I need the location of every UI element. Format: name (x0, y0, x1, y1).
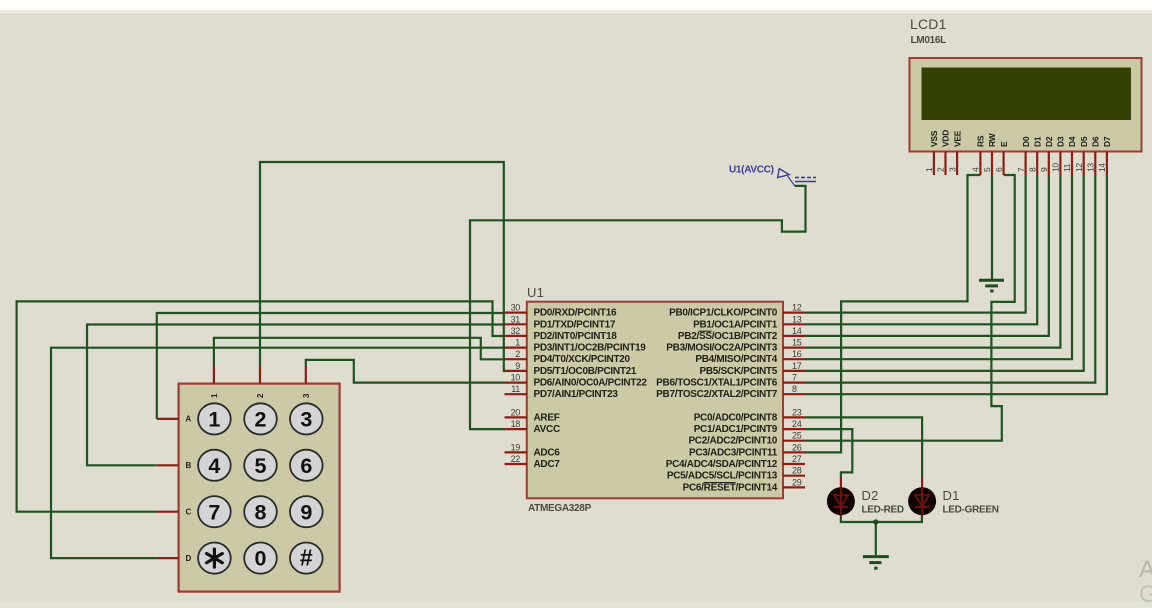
svg-text:D5: D5 (1079, 136, 1089, 147)
svg-text:32: 32 (511, 326, 521, 336)
svg-text:PC3/ADC3/PCINT11: PC3/ADC3/PCINT11 (689, 447, 778, 458)
svg-text:26: 26 (792, 442, 802, 452)
U1 pin stub 11 left (505, 393, 527, 395)
svg-text:30: 30 (511, 303, 521, 313)
U1 pin stub 29 right (783, 486, 805, 488)
U1 body (527, 302, 783, 499)
keypad button 7 (198, 496, 231, 527)
svg-text:PB6/TOSC1/XTAL1/PCINT6: PB6/TOSC1/XTAL1/PCINT6 (656, 378, 778, 389)
svg-text:13: 13 (792, 314, 802, 324)
U1 pin stub 25 right (783, 440, 805, 442)
svg-text:28: 28 (792, 466, 802, 476)
svg-text:D7: D7 (1102, 136, 1112, 147)
keypad pin stub col2 (259, 366, 261, 384)
wire LCD E to U1 pin25 net (805, 175, 1015, 441)
LCD1 pin stub VEE (956, 152, 958, 176)
wire AVCC net U1 pin18 to power flag (470, 186, 806, 429)
svg-text:12: 12 (792, 303, 802, 313)
svg-text:D6: D6 (1091, 136, 1101, 147)
svg-text:VSS: VSS (929, 130, 939, 147)
wire ground stem below LEDs (875, 522, 877, 555)
svg-text:8: 8 (792, 384, 797, 394)
svg-text:D3: D3 (1056, 136, 1066, 147)
U1 pin stub 15 right (783, 347, 805, 349)
keypad button 0 (244, 543, 277, 574)
svg-text:D1: D1 (943, 488, 960, 503)
wire U1 PB to LCD D7 net (805, 175, 1107, 394)
wire U1 PB to LCD D1 net (805, 175, 1037, 324)
svg-text:3: 3 (947, 167, 957, 172)
keypad button # (290, 543, 323, 574)
svg-text:RW: RW (987, 132, 997, 147)
svg-text:6: 6 (300, 454, 312, 478)
keypad pin stub col1 (213, 366, 215, 384)
wire keypad col1 to U1 pin2 net (214, 338, 505, 366)
wire keypad col3 to U1 pin10 net (306, 360, 505, 383)
keypad button 8 (244, 496, 277, 527)
D1 anode stub (921, 478, 923, 489)
U1 pin stub 16 right (783, 358, 805, 360)
svg-text:10: 10 (511, 373, 521, 383)
wire U1 pin23 to D1 anode net (805, 417, 922, 477)
U1 pin stub 17 right (783, 370, 805, 372)
keypad button 9 (290, 496, 323, 527)
wire LCD RS to U1 pin26 net (805, 175, 980, 452)
svg-text:PD7/AIN1/PCINT23: PD7/AIN1/PCINT23 (534, 389, 619, 400)
junction dot LED ground bus (873, 519, 878, 524)
keypad button 6 (290, 450, 323, 481)
LCD1 pin stub D6 (1094, 152, 1096, 176)
svg-text:U1: U1 (527, 285, 544, 300)
svg-text:LED-GREEN: LED-GREEN (943, 505, 999, 516)
U1 pin stub 13 right (783, 323, 805, 325)
svg-text:PB2/SS/OC1B/PCINT2: PB2/SS/OC1B/PCINT2 (678, 331, 778, 342)
svg-text:17: 17 (792, 361, 802, 371)
svg-text:9: 9 (300, 500, 312, 524)
keypad pin stub row C (157, 511, 179, 513)
svg-text:2: 2 (936, 167, 946, 172)
svg-text:LCD1: LCD1 (910, 16, 947, 32)
svg-text:4: 4 (971, 167, 981, 172)
svg-text:PD4/T0/XCK/PCINT20: PD4/T0/XCK/PCINT20 (534, 354, 631, 365)
svg-text:VEE: VEE (952, 130, 962, 147)
svg-text:6: 6 (994, 167, 1004, 172)
svg-text:5: 5 (982, 167, 992, 172)
svg-text:25: 25 (792, 431, 802, 441)
svg-text:10: 10 (1051, 163, 1061, 172)
svg-text:23: 23 (792, 407, 802, 417)
svg-text:D2: D2 (1044, 136, 1054, 147)
svg-text:PB1/OC1A/PCINT1: PB1/OC1A/PCINT1 (693, 319, 778, 330)
LCD1 pin stub D3 (1059, 152, 1061, 176)
LCD1 pin stub RW (991, 152, 993, 176)
U1 overline RESET (704, 482, 736, 484)
U1 pin stub 7 right (783, 382, 805, 384)
svg-text:7: 7 (208, 500, 220, 524)
svg-text:VDD: VDD (941, 130, 951, 147)
svg-text:16: 16 (792, 349, 802, 359)
U1 pin stub 18 left (505, 428, 527, 430)
svg-text:20: 20 (511, 407, 521, 417)
keypad pin stub row D (157, 557, 179, 559)
svg-text:PB0/ICP1/CLKO/PCINT0: PB0/ICP1/CLKO/PCINT0 (669, 308, 778, 319)
svg-text:29: 29 (792, 477, 802, 487)
svg-text:ATMEGA328P: ATMEGA328P (528, 503, 592, 514)
svg-text:31: 31 (511, 314, 521, 324)
U1 pin stub 31 left (505, 323, 527, 325)
U1 pin stub 28 right (783, 475, 805, 477)
svg-text:22: 22 (511, 454, 521, 464)
U1 pin stub 24 right (783, 428, 805, 430)
svg-text:PB7/TOSC2/XTAL2/PCINT7: PB7/TOSC2/XTAL2/PCINT7 (656, 389, 778, 400)
svg-text:11: 11 (1062, 163, 1072, 172)
wire U1 pin24 to D2 anode net (805, 429, 852, 477)
svg-text:0: 0 (255, 547, 267, 571)
keypad body (179, 384, 340, 592)
wire row C keypad to U1 pin32 net (17, 301, 505, 511)
top white bar (0, 0, 1152, 10)
U1 pin stub 9 left (505, 370, 527, 372)
keypad pin stub row B (157, 464, 179, 466)
svg-text:LM016L: LM016L (911, 35, 947, 46)
svg-text:G: G (1139, 581, 1152, 608)
svg-text:1: 1 (515, 338, 520, 348)
bottom light strip (0, 602, 1152, 608)
U1 pin stub 8 right (783, 393, 805, 395)
svg-text:D2: D2 (862, 488, 879, 503)
svg-text:18: 18 (511, 419, 521, 429)
svg-text:PB3/MOSI/OC2A/PCINT3: PB3/MOSI/OC2A/PCINT3 (666, 343, 777, 354)
svg-text:PC1/ADC1/PCINT9: PC1/ADC1/PCINT9 (694, 424, 778, 435)
U1 pin stub 1 left (505, 347, 527, 349)
svg-text:1: 1 (924, 167, 934, 172)
svg-text:PB4/MISO/PCINT4: PB4/MISO/PCINT4 (695, 354, 777, 365)
svg-text:3: 3 (300, 408, 312, 432)
svg-text:2: 2 (515, 349, 520, 359)
U1 pin stub 22 left (505, 463, 527, 465)
D2 anode stub (840, 478, 842, 489)
svg-text:PD6/AIN0/OC0A/PCINT22: PD6/AIN0/OC0A/PCINT22 (534, 378, 648, 389)
svg-text:PC4/ADC4/SDA/PCINT12: PC4/ADC4/SDA/PCINT12 (666, 459, 778, 470)
svg-text:15: 15 (792, 338, 802, 348)
wire keypad col2 to U1 pin9 net (260, 162, 506, 371)
svg-text:PD2/INT0/PCINT18: PD2/INT0/PCINT18 (534, 331, 618, 342)
svg-text:ADC6: ADC6 (534, 447, 561, 458)
svg-text:D: D (186, 554, 192, 563)
keypad button * (198, 543, 231, 574)
LCD1 pin stub D4 (1071, 152, 1073, 176)
LCD1 pin stub D5 (1083, 152, 1085, 176)
svg-text:14: 14 (1097, 163, 1107, 172)
svg-text:PB5/SCK/PCINT5: PB5/SCK/PCINT5 (700, 366, 778, 377)
svg-text:9: 9 (1039, 167, 1049, 172)
svg-text:2: 2 (255, 408, 267, 432)
svg-text:PC6/RESET/PCINT14: PC6/RESET/PCINT14 (683, 482, 778, 493)
D2 cathode stub (840, 514, 842, 517)
svg-text:5: 5 (255, 454, 267, 478)
svg-text:A: A (186, 415, 192, 424)
LCD1 pin stub D7 (1106, 152, 1108, 176)
svg-text:AVCC: AVCC (534, 424, 560, 435)
wire U1 PB to LCD D4 net (805, 175, 1072, 359)
U1 pin stub 19 left (505, 451, 527, 453)
LCD1 pin stub D0 (1024, 152, 1026, 176)
svg-text:D1: D1 (1032, 136, 1042, 147)
wire row B keypad to U1 pin31 net (87, 325, 505, 466)
svg-text:U1(AVCC): U1(AVCC) (729, 165, 774, 176)
ground symbol below LCD RW (979, 280, 1004, 291)
keypad button 2 (244, 403, 277, 434)
svg-text:7: 7 (1016, 167, 1026, 172)
U1 pin stub 10 left (505, 382, 527, 384)
svg-text:E: E (999, 141, 1009, 147)
svg-text:24: 24 (792, 419, 802, 429)
wire U1 PB to LCD D3 net (805, 175, 1060, 348)
wire U1 PB to LCD D0 net (805, 175, 1026, 313)
wire row D keypad to U1 pin1 net (51, 348, 505, 558)
U1 pin stub 12 right (783, 312, 805, 314)
svg-text:9: 9 (515, 361, 520, 371)
svg-text:4: 4 (208, 454, 220, 478)
keypad pin stub row A (157, 418, 179, 420)
LCD1 pin stub RS (979, 152, 981, 176)
svg-text:1: 1 (208, 408, 220, 432)
power flag U1(AVCC) terminal (778, 169, 795, 186)
svg-text:27: 27 (792, 454, 802, 464)
LED D1 body (908, 487, 936, 515)
keypad button 5 (244, 450, 277, 481)
svg-text:LED-RED: LED-RED (862, 505, 904, 516)
svg-text:D0: D0 (1021, 136, 1031, 147)
svg-text:13: 13 (1086, 163, 1096, 172)
U1 pin stub 32 left (505, 335, 527, 337)
D1 cathode stub (921, 514, 923, 517)
svg-text:#: # (300, 545, 313, 571)
svg-text:8: 8 (1027, 167, 1037, 172)
svg-text:PC2/ADC2/PCINT10: PC2/ADC2/PCINT10 (688, 436, 777, 447)
svg-text:ADC7: ADC7 (534, 459, 561, 470)
LCD1 pin stub D1 (1036, 152, 1038, 176)
svg-text:PD1/TXD/PCINT17: PD1/TXD/PCINT17 (534, 319, 616, 330)
svg-text:PD3/INT1/OC2B/PCINT19: PD3/INT1/OC2B/PCINT19 (534, 343, 647, 354)
keypad button 3 (290, 403, 323, 434)
wire U1 PB to LCD D2 net (805, 175, 1049, 336)
svg-text:A: A (1139, 556, 1152, 583)
LCD1 pin stub VDD (944, 152, 946, 176)
wire U1 PB to LCD D5 net (805, 175, 1084, 371)
U1 overline SS (699, 330, 712, 332)
svg-text:C: C (186, 508, 192, 517)
wire U1 PB to LCD D6 net (805, 175, 1095, 383)
LED D2 body (827, 487, 855, 515)
LCD1 body (910, 58, 1142, 152)
svg-text:PC5/ADC5/SCL/PCINT13: PC5/ADC5/SCL/PCINT13 (667, 471, 778, 482)
wire LCD RW to ground (991, 175, 993, 279)
svg-text:14: 14 (792, 326, 802, 336)
LCD1 pin stub VSS (933, 152, 935, 176)
U1 pin stub 30 left (505, 312, 527, 314)
svg-text:D4: D4 (1067, 136, 1077, 147)
svg-text:8: 8 (255, 500, 267, 524)
keypad pin stub col3 (305, 366, 307, 384)
svg-text:12: 12 (1074, 163, 1084, 172)
svg-text:19: 19 (511, 442, 521, 452)
svg-text:7: 7 (792, 373, 797, 383)
svg-text:AREF: AREF (534, 412, 560, 423)
LCD1 screen (922, 68, 1132, 121)
svg-text:11: 11 (511, 384, 520, 394)
svg-text:PD0/RXD/PCINT16: PD0/RXD/PCINT16 (534, 308, 617, 319)
keypad button 4 (198, 450, 231, 481)
svg-text:B: B (186, 461, 192, 470)
U1 pin stub 2 left (505, 358, 527, 360)
wire D2 cathode to ground bus (841, 515, 922, 523)
U1 pin stub 23 right (783, 416, 805, 418)
U1 pin stub 26 right (783, 451, 805, 453)
power flag net value dashes (795, 178, 816, 182)
wire row A keypad to U1 pin30 net (157, 313, 505, 419)
ground symbol below LEDs (863, 557, 889, 569)
svg-text:PC0/ADC0/PCINT8: PC0/ADC0/PCINT8 (694, 412, 778, 423)
LCD1 pin stub D2 (1048, 152, 1050, 176)
svg-text:PD5/T1/OC0B/PCINT21: PD5/T1/OC0B/PCINT21 (534, 366, 637, 377)
U1 pin stub 27 right (783, 463, 805, 465)
U1 pin stub 14 right (783, 335, 805, 337)
U1 pin stub 20 left (505, 416, 527, 418)
keypad button 1 (198, 403, 231, 434)
svg-text:RS: RS (976, 135, 986, 147)
LCD1 pin stub E (1002, 152, 1004, 176)
